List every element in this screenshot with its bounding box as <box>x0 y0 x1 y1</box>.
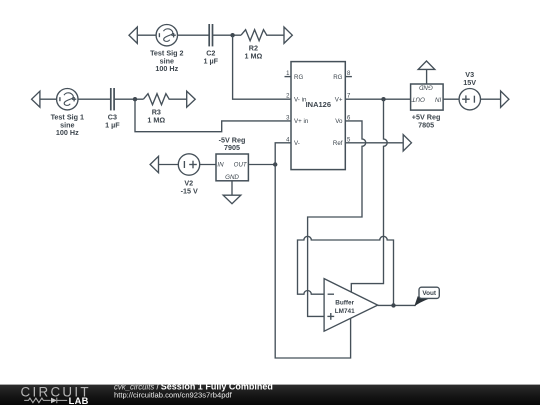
wire U1 pin7 V+ to U2 7805 OUT <box>345 98 410 100</box>
svg-text:OUT: OUT <box>234 162 248 169</box>
svg-text:V+ in: V+ in <box>294 118 309 125</box>
svg-text:V+: V+ <box>335 97 343 104</box>
svg-text:Vo: Vo <box>335 118 343 125</box>
label U4: Buffer / LM741 <box>335 299 355 315</box>
svg-text:-15 V: -15 V <box>181 186 198 195</box>
wire U2 GND stub up <box>426 69 428 84</box>
pin 8 stub RG <box>345 76 352 78</box>
node junction C2/R2/pin2 <box>230 33 234 37</box>
node junction V+ rail <box>381 97 385 101</box>
resistor R2 <box>241 30 267 41</box>
label C2: 1 µF <box>204 49 219 66</box>
U2 rotated pin labels <box>411 84 442 103</box>
U1 pin labels and numbers <box>286 71 351 147</box>
wire V3 to arrow <box>481 98 501 100</box>
op-amp U1 INA126 body <box>291 62 345 170</box>
wire node C3 junction down/over to U1 pin 3 <box>135 99 291 132</box>
ground symbol (rotated up) above U2 <box>418 61 435 69</box>
port arrow P3 (left, V2 branch) <box>150 156 158 172</box>
wire U2 IN to V3 <box>443 98 459 100</box>
port arrow P5 (right, Test Sig 2 branch) <box>284 27 292 43</box>
wire V2 to U3 IN <box>200 164 216 166</box>
U4 plus input symbol <box>327 313 334 320</box>
pin 1 stub RG <box>285 76 292 78</box>
wire V- rail: U1 pin4 down along left to op-amp V- stub <box>275 143 350 358</box>
voltage source V2 -15 V <box>178 154 199 175</box>
label V4: Test Sig 2 / sine / 100 Hz <box>150 49 183 73</box>
label U2: +5V Reg / 7805 <box>412 113 441 130</box>
svg-text:GND: GND <box>419 84 433 91</box>
node junction C3/R3/pin3 <box>133 97 137 101</box>
port arrow P4 (left, Test Sig 2 branch) <box>129 27 137 43</box>
svg-text:RG: RG <box>333 74 342 81</box>
svg-text:15V: 15V <box>463 78 476 87</box>
wire V4 to C2 <box>178 34 210 36</box>
wire C2 to R2 <box>213 34 241 36</box>
logo resistor-diode squiggle <box>24 398 67 404</box>
capacitor C3 <box>111 88 114 110</box>
svg-text:GND: GND <box>225 174 239 181</box>
label R2: 1 MΩ <box>245 44 263 61</box>
op-amp U4 Buffer LM741 body <box>324 279 378 332</box>
wire arrow to V2 <box>159 164 179 166</box>
svg-text:IN: IN <box>435 96 442 103</box>
svg-text:OUT: OUT <box>411 96 425 103</box>
svg-text:Ref: Ref <box>333 140 343 147</box>
wire feedback: op-amp - input left, up, right (hops), down to output node <box>298 236 394 305</box>
wire V1 to C3 <box>78 98 111 100</box>
node Vout flag pointer <box>414 296 428 306</box>
svg-text:INA126: INA126 <box>306 100 331 109</box>
svg-text:100 Hz: 100 Hz <box>155 64 178 73</box>
voltage source V1 Test Sig 1 <box>57 89 78 110</box>
wire C3 to R3 <box>114 98 143 100</box>
svg-text:LAB: LAB <box>69 396 89 405</box>
port arrow P2 (right, Test Sig 1 branch) <box>187 91 196 107</box>
svg-text:Vout: Vout <box>422 290 437 297</box>
wire R2 to arrow <box>266 34 284 36</box>
wire arrow to V4 <box>137 34 156 36</box>
port arrow P1 (left, Test Sig 1 branch) <box>32 91 40 107</box>
port arrow P6 (right, V3 branch) <box>501 91 509 107</box>
node junction V- rail / U3 OUT <box>273 162 277 166</box>
svg-text:7905: 7905 <box>224 143 240 152</box>
port arrow P7 (right, Ref) <box>403 135 411 151</box>
svg-text:Buffer: Buffer <box>335 299 354 306</box>
wire Vo path: U1 pin6 right, down (hop), to op-amp + input <box>308 121 366 317</box>
svg-text:100 Hz: 100 Hz <box>56 128 79 137</box>
wire V+ rail: junction down (hop) to op-amp V+ stub <box>351 99 387 292</box>
wire arrow to V1 <box>40 98 57 100</box>
label R3: 1 MΩ <box>147 108 165 125</box>
regulator U2 +5V Reg 7805 body (rotated 180) <box>411 84 444 110</box>
svg-text:LM741: LM741 <box>335 308 355 315</box>
svg-text:7805: 7805 <box>418 120 434 129</box>
wire U3 OUT to V- rail <box>248 164 275 166</box>
U3 pin labels <box>217 162 248 182</box>
svg-text:IN: IN <box>217 162 224 169</box>
svg-text:RG: RG <box>294 74 303 81</box>
svg-text:1 µF: 1 µF <box>105 120 120 129</box>
svg-text:1 MΩ: 1 MΩ <box>245 51 263 60</box>
wire U1 pin5 Ref to port arrow <box>345 142 403 144</box>
svg-text:V-: V- <box>294 140 300 147</box>
svg-text:http://circuitlab.com/cn923s7r: http://circuitlab.com/cn923s7rb4pdf <box>114 391 233 400</box>
ground symbol below U3 <box>223 195 241 204</box>
wire U3 GND stub down <box>231 181 233 195</box>
U4 minus input symbol <box>328 293 334 295</box>
svg-text:1 MΩ: 1 MΩ <box>147 115 165 124</box>
voltage source V4 Test Sig 2 <box>156 25 177 46</box>
label V2: -15 V <box>181 179 198 196</box>
node Vout label box <box>419 287 439 298</box>
label C3: 1 µF <box>105 113 120 130</box>
regulator U3 -5V Reg 7905 body <box>216 154 248 181</box>
wire output to Vout flag <box>378 304 416 306</box>
capacitor C2 <box>209 24 212 46</box>
node junction output/feedback <box>391 303 395 307</box>
svg-text:1 µF: 1 µF <box>204 56 219 65</box>
resistor R3 <box>143 94 169 105</box>
wire R3 to arrow <box>169 98 187 100</box>
wire node C2 junction down to U1 pin 2 <box>233 35 291 99</box>
label V3: 15V <box>463 70 476 87</box>
label U3: -5V Reg / 7905 <box>219 136 246 153</box>
label V1: Test Sig 1 / sine / 100 Hz <box>51 113 84 137</box>
voltage source V3 15V <box>459 89 480 110</box>
